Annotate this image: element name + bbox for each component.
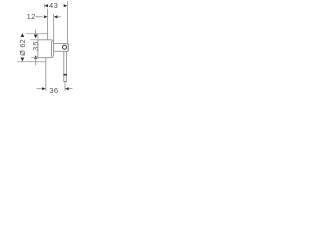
- dimension 43 extension stub left: [43, 3, 45, 8]
- dimension 43 right arrow: [64, 4, 68, 7]
- dimension 36 left extension line: [45, 58, 47, 91]
- dimension 12 right-pointing arrow: [44, 15, 48, 18]
- rod bottom cap: [64, 81, 67, 83]
- svg-text:Ø 62: Ø 62: [20, 39, 27, 56]
- svg-text:36: 36: [49, 86, 58, 95]
- dimension 36 left-pointing arrow: [65, 87, 69, 90]
- wall plate top-left extension line: [30, 39, 38, 41]
- dimension 12 leader line: [36, 16, 43, 18]
- wall plate inner rim line: [51, 41, 53, 57]
- dimension 12 extension line left: [47, 9, 49, 40]
- dimension 36 right-pointing arrow: [42, 87, 46, 90]
- dimension 35 top stub: [35, 29, 37, 34]
- bracket right edge: [67, 44, 69, 52]
- dimension 62 bottom extension line: [17, 61, 46, 63]
- wall plate bottom-left extension line: [31, 57, 38, 59]
- wall plate outline: [38, 40, 54, 58]
- dimension 62 top extension line: [26, 33, 48, 35]
- dimension 35 top down arrow: [34, 35, 38, 39]
- dimension 36 arrow tail: [69, 88, 73, 90]
- dimension 12 arrow tail: [57, 16, 60, 18]
- dimension 62 up arrow: [21, 33, 25, 37]
- svg-text:43: 43: [49, 1, 58, 10]
- bracket top edge: [54, 43, 69, 45]
- rod left edge: [63, 51, 65, 82]
- rod dark band: [63, 74, 66, 76]
- dimension 43 extension line right: [66, 1, 68, 43]
- dimension 36 leader line: [37, 88, 43, 90]
- dimension 43 left arrow: [44, 4, 48, 7]
- pivot circle: [63, 45, 67, 49]
- dimension 35 bottom up arrow: [34, 55, 38, 59]
- dimension 36 right extension line: [64, 83, 66, 90]
- dimension 12 left-pointing arrow: [54, 15, 58, 18]
- dimension 12 extension line right: [53, 14, 55, 41]
- rod right edge: [65, 51, 67, 82]
- dimension 35 bottom stub: [35, 59, 37, 66]
- wall plate left edge upper stub: [37, 34, 39, 40]
- svg-text:12: 12: [27, 12, 36, 21]
- bracket bottom edge: [54, 50, 69, 52]
- dimension 62 down arrow: [21, 58, 25, 62]
